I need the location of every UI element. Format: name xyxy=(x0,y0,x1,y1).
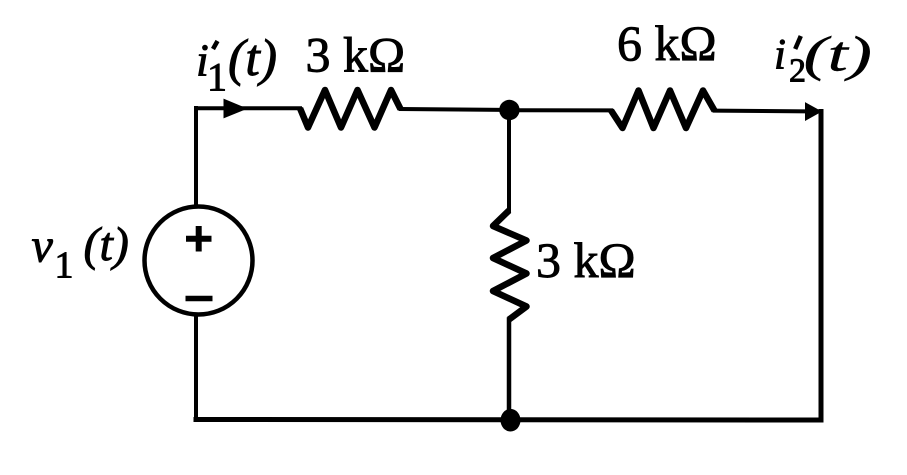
svg-text:(t): (t) xyxy=(804,27,872,82)
svg-text:6 kΩ: 6 kΩ xyxy=(617,15,717,71)
svg-text:v: v xyxy=(32,220,54,273)
svg-text:(t): (t) xyxy=(84,218,129,271)
svg-text:i: i xyxy=(774,32,786,79)
svg-text:3 kΩ: 3 kΩ xyxy=(536,232,636,288)
svg-text:1: 1 xyxy=(55,244,74,286)
svg-text:3 kΩ: 3 kΩ xyxy=(306,27,406,83)
svg-text:(t): (t) xyxy=(228,30,277,87)
svg-text:1: 1 xyxy=(207,55,227,100)
